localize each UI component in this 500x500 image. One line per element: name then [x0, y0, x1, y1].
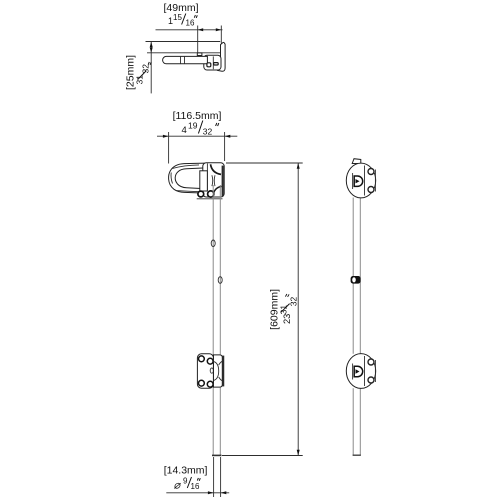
front handle inner 3d line top — [173, 165, 200, 169]
side bottom plate face line — [364, 356, 366, 386]
side top screw lower — [368, 187, 374, 193]
front guide bell waist — [214, 362, 219, 381]
side bottom plate — [346, 354, 375, 389]
side top knob — [354, 176, 362, 186]
top view body — [204, 55, 221, 70]
front body inner left edge — [206, 163, 208, 190]
side bottom knob dark mark — [356, 369, 360, 373]
front handle cap 3d arc — [171, 173, 172, 184]
top view handle inner lines — [180, 56, 182, 63]
side top plate face line — [364, 166, 366, 196]
front handle outer loop — [169, 163, 206, 193]
side top plate right edge — [374, 170, 376, 192]
dim text [14.3mm] — [164, 465, 208, 477]
front body screw left — [198, 191, 204, 197]
side bottom plate right edge — [374, 360, 376, 382]
dimension line 609mm vertical — [297, 163, 300, 456]
front body bell top curve — [211, 164, 222, 174]
front guide screw TR — [207, 358, 213, 364]
top view handle (stadium) — [163, 56, 208, 63]
svg-text:15: 15 — [173, 13, 182, 22]
front body bell bottom curve — [213, 186, 222, 196]
svg-text:16: 16 — [191, 482, 200, 491]
top view handle neck tab — [197, 53, 202, 56]
dim text 1 15/16 inch — [168, 13, 197, 28]
dim text [25mm] rotated — [125, 55, 137, 90]
top view body divider — [212, 56, 214, 69]
svg-text:19: 19 — [188, 121, 198, 131]
dim text 23 31/32 inch rotated — [278, 296, 298, 324]
svg-text:31: 31 — [135, 75, 145, 85]
side bottom knob — [354, 366, 363, 376]
front guide screw BR — [207, 381, 213, 387]
side top plate — [346, 163, 375, 198]
front body screw right — [208, 191, 214, 197]
front handle inner 3d line bottom — [177, 191, 204, 192]
front guide bell rim band — [222, 356, 224, 387]
front body bell rim band — [222, 166, 224, 196]
front guide screw BL — [199, 380, 205, 386]
front body bottom edge — [197, 198, 223, 200]
dimension line 14.3mm — [166, 491, 229, 494]
dimension line 49mm — [156, 28, 223, 31]
side top plate left edge detail — [352, 173, 354, 189]
side bottom plate left edge detail — [352, 364, 354, 380]
front rod hole upper — [211, 240, 215, 247]
top view mounting face line — [147, 52, 220, 54]
side top screw upper — [368, 169, 374, 175]
svg-text:9: 9 — [183, 477, 188, 486]
side bottom screw lower — [368, 377, 374, 383]
svg-text:[14.3mm]: [14.3mm] — [164, 465, 208, 477]
extension line top of 609mm — [226, 162, 303, 164]
inch prime marks 31/32 — [148, 62, 149, 65]
top view plate top edge — [146, 41, 221, 43]
svg-text:32: 32 — [288, 296, 298, 306]
svg-text:32: 32 — [203, 127, 213, 137]
dim text [116.5mm] — [173, 110, 222, 122]
svg-text:4: 4 — [182, 125, 187, 136]
extension line right of 49mm — [220, 26, 222, 44]
top view body notch right — [214, 63, 219, 65]
extension line left of 116.5mm — [168, 132, 170, 164]
fraction slash 23 31/32 rotated — [281, 304, 290, 313]
side rod collar — [351, 276, 361, 284]
side rod lower segment — [353, 388, 360, 455]
svg-text:16: 16 — [186, 19, 195, 28]
extension line right of 14.3mm — [220, 457, 222, 497]
front guide center oval — [210, 368, 213, 373]
front rod — [213, 185, 220, 455]
front guide bell flange curves — [219, 361, 223, 380]
top view L bracket — [218, 42, 225, 71]
fraction slash 31/32 rotated — [138, 71, 147, 80]
extension line left of 49mm — [197, 26, 199, 53]
front rod hole lower — [218, 277, 222, 284]
inch prime marks rotated — [285, 294, 287, 297]
dimension line 116.5mm — [157, 135, 237, 138]
front guide screw TL — [199, 356, 205, 362]
front body backplate — [203, 163, 224, 197]
extension line bottom of 609mm — [222, 455, 303, 457]
dim text dia 9/16 inch — [174, 477, 201, 492]
side bottom screw upper — [368, 359, 374, 365]
front handle clevis block — [200, 171, 208, 191]
front guide bracket plate — [197, 354, 213, 388]
dim text [609mm] rotated — [268, 289, 280, 330]
front guide bell outline — [214, 355, 223, 387]
front rod bottom cap — [212, 454, 222, 456]
dimension line 25mm vertical — [150, 42, 153, 94]
front body bell waist — [212, 175, 215, 186]
dim text 31/32 inch rotated — [135, 64, 151, 85]
dim text 4 19/32 inch — [182, 121, 219, 137]
dim text [49mm] — [163, 2, 198, 14]
side handle tab — [352, 159, 361, 164]
extension line right of 116.5mm — [224, 132, 226, 161]
side rod bottom cap — [353, 454, 361, 456]
side rod upper segment — [353, 198, 360, 354]
side top knob dark mark — [356, 179, 360, 183]
top view body notch left — [207, 63, 211, 67]
extension line left of 14.3mm — [213, 457, 215, 497]
